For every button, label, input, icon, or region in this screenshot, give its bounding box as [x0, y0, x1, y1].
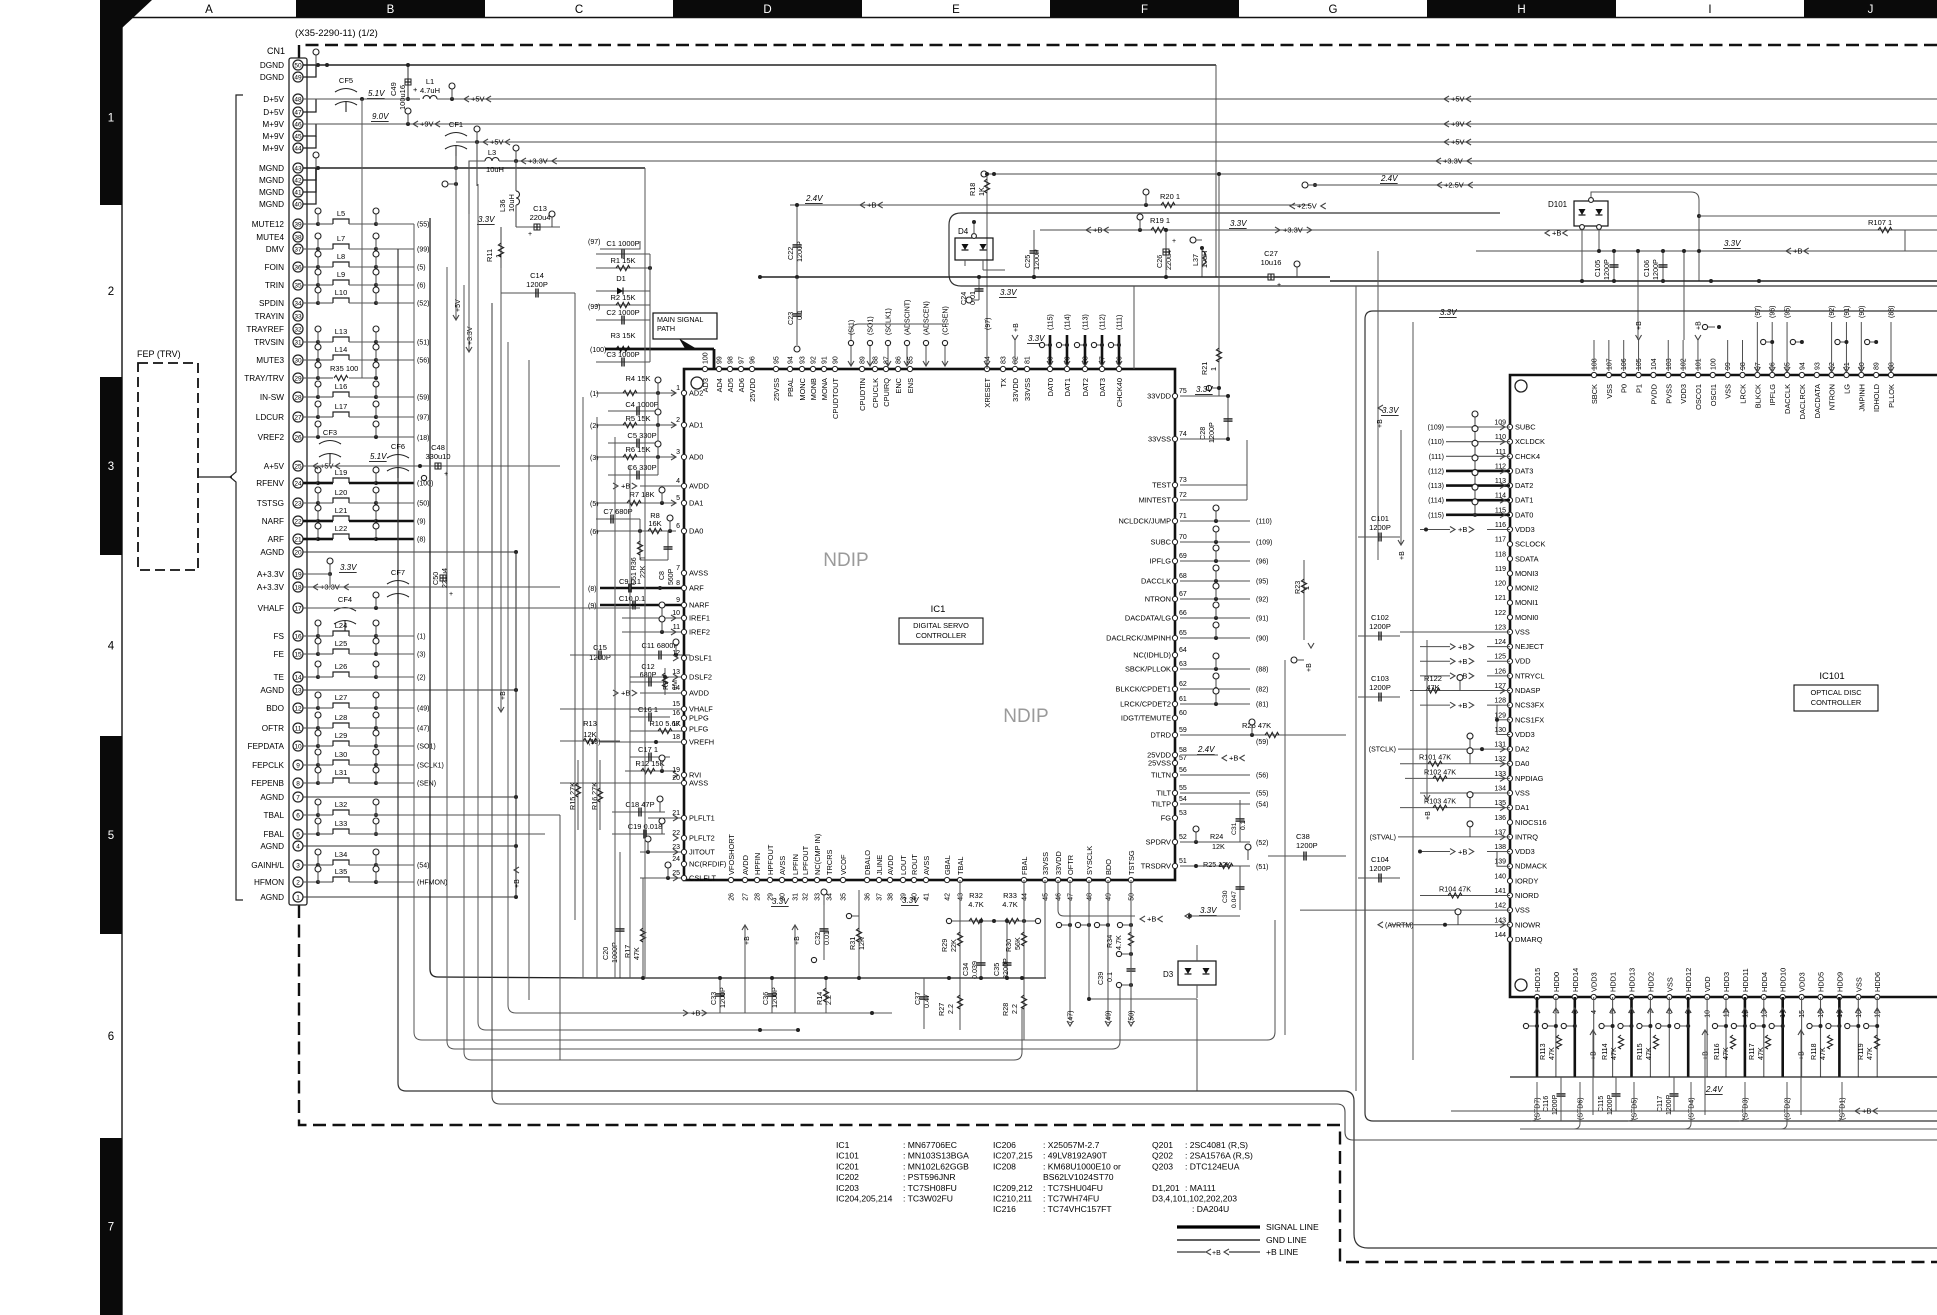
connector label (109) — [1180, 541, 1250, 543]
svg-text:8: 8 — [296, 780, 300, 787]
svg-text:86: 86 — [896, 356, 903, 364]
inductor row L32 pin 6 — [303, 814, 318, 816]
IC1 pin1 indicator — [691, 377, 703, 389]
svg-text:50: 50 — [294, 62, 302, 69]
IC1 pin 74 33VSS — [1172, 436, 1177, 441]
svg-text:130: 130 — [1494, 727, 1506, 734]
svg-text:C3 1000P: C3 1000P — [606, 350, 639, 359]
svg-text:+B: +B — [691, 1009, 700, 1018]
IC1 pin 44 FBAL — [1021, 877, 1026, 882]
rail +B/+2.5V 205 — [790, 204, 1310, 206]
stub circles row under IC1 47-50 — [1056, 922, 1061, 927]
svg-text:120: 120 — [1494, 581, 1506, 588]
IC101 pin 10 VDD — [1705, 994, 1710, 999]
svg-text:L13: L13 — [335, 327, 348, 336]
IC101 pin 98 LRCK — [1740, 372, 1745, 377]
CN1 pin 18 A+3.3V — [293, 582, 303, 592]
CN1 pin 7 AGND — [293, 792, 303, 802]
svg-text:TX: TX — [999, 378, 1008, 388]
svg-text:35: 35 — [294, 282, 302, 289]
svg-text:47K: 47K — [1644, 1047, 1653, 1060]
IC101 pin 137 INTRQ — [1507, 834, 1512, 839]
IC1 pin 30 AVSS — [779, 877, 784, 882]
svg-text:MONI0: MONI0 — [1515, 613, 1538, 622]
svg-text:PLFLT2: PLFLT2 — [689, 834, 715, 843]
svg-text:(109): (109) — [1428, 425, 1444, 432]
svg-text:47K: 47K — [1547, 1047, 1556, 1060]
CN1 pin 43 MGND — [293, 163, 303, 173]
svg-text:BLKCK: BLKCK — [1753, 384, 1762, 408]
IC101 pin 118 SDATA — [1507, 556, 1512, 561]
svg-text:(HFMON): (HFMON) — [417, 880, 447, 887]
svg-text:DA1: DA1 — [1515, 803, 1529, 812]
IC1 pin 93 MONC — [799, 366, 804, 371]
svg-text:10: 10 — [1705, 1010, 1712, 1018]
IC101 pin 104 PVDD — [1651, 372, 1656, 377]
svg-text:NCLDCK/JUMP: NCLDCK/JUMP — [1118, 517, 1171, 526]
IC101 pin 116 VDD3 — [1507, 527, 1512, 532]
IC101 pin 13 HDD4 — [1761, 994, 1766, 999]
svg-text:BS62LV1024ST70: BS62LV1024ST70 — [1043, 1172, 1114, 1182]
svg-text:33VDD: 33VDD — [1011, 378, 1020, 402]
IC1 pin 12 DSLF1 — [681, 655, 686, 660]
inductor row L31 pin 8 — [303, 782, 318, 784]
svg-text:(56): (56) — [1256, 773, 1268, 780]
svg-text:+B LINE: +B LINE — [1266, 1247, 1299, 1257]
svg-text:R34: R34 — [1105, 935, 1114, 948]
wire TEST MINTEST — [1180, 484, 1247, 486]
svg-text:6: 6 — [296, 812, 300, 819]
IC101 pin 140 IORDY — [1507, 878, 1512, 883]
IC1 pin 79 DAT1 — [1064, 366, 1069, 371]
svg-text:4: 4 — [676, 478, 680, 485]
inductor row L22 pin 21 — [303, 538, 318, 541]
svg-text:FS: FS — [274, 632, 285, 641]
svg-text:3.3V: 3.3V — [772, 897, 789, 906]
svg-text:32: 32 — [803, 893, 810, 901]
svg-text:SBCK: SBCK — [1590, 384, 1599, 404]
svg-text:100: 100 — [1710, 358, 1717, 370]
svg-text:47K: 47K — [1865, 1047, 1874, 1060]
IC101 pin 134 VSS — [1507, 790, 1512, 795]
svg-text:89: 89 — [1874, 362, 1881, 370]
IC101 pin 11 HDD3 — [1723, 994, 1728, 999]
svg-text:(AVRTM): (AVRTM) — [1385, 922, 1414, 929]
svg-text:L37: L37 — [1191, 254, 1200, 266]
IC1 pin 69 IPFLG — [1172, 558, 1177, 563]
svg-text:FEPCLK: FEPCLK — [252, 761, 284, 770]
CN1 pin 11 OFTR — [293, 723, 303, 733]
svg-text:AVSS: AVSS — [689, 569, 708, 578]
svg-text:L17: L17 — [335, 402, 348, 411]
svg-text:: TC74VHC157FT: : TC74VHC157FT — [1043, 1204, 1112, 1214]
svg-text:VSS: VSS — [1854, 977, 1863, 992]
CN1 pin 25 A+5V — [293, 461, 303, 471]
svg-text:4.7K: 4.7K — [968, 900, 983, 909]
CN1 pin 47 D+5V — [293, 107, 303, 117]
svg-text:(ADSCINT): (ADSCINT) — [905, 300, 912, 335]
IC101 pin 133 NPDIAG — [1507, 776, 1512, 781]
svg-text:DACDATA/LG: DACDATA/LG — [1125, 614, 1171, 623]
svg-text:1200P: 1200P — [1369, 622, 1391, 631]
svg-text:1200P: 1200P — [1296, 841, 1318, 850]
IC1 pin 41 AVSS — [923, 877, 928, 882]
svg-text:SPDIN: SPDIN — [259, 299, 284, 308]
inductor row L9 pin 35 — [303, 284, 318, 286]
svg-text:VDD3: VDD3 — [1515, 730, 1535, 739]
CN1 pin 38 MUTE4 — [293, 232, 303, 242]
svg-text:+B: +B — [621, 689, 630, 698]
svg-text:103: 103 — [1666, 358, 1673, 370]
svg-text:IPFLG: IPFLG — [1150, 557, 1172, 566]
svg-text:1200P: 1200P — [1032, 249, 1041, 270]
svg-text:124: 124 — [1494, 639, 1506, 646]
svg-text:11: 11 — [295, 725, 302, 732]
svg-text:AGND: AGND — [260, 793, 284, 802]
svg-text:C8: C8 — [659, 571, 666, 580]
IC1 pin 17 PLFG — [681, 726, 686, 731]
CN1 pin 19 A+3.3V — [293, 569, 303, 579]
wire bundle — [464, 285, 1014, 1060]
IC1 pin 29 HPFOUT — [767, 877, 772, 882]
inductor row L13 pin 31 — [303, 341, 318, 343]
IC101 pin 127 NDASP — [1507, 688, 1512, 693]
svg-text:R118: R118 — [1809, 1043, 1818, 1060]
svg-text:IREF1: IREF1 — [689, 614, 710, 623]
svg-text:R35 100: R35 100 — [330, 364, 358, 373]
svg-text:1200P: 1200P — [1607, 1094, 1614, 1115]
connector label (90) — [1180, 637, 1250, 639]
svg-text:I: I — [1708, 4, 1711, 16]
svg-text:MONC: MONC — [798, 377, 807, 400]
svg-text:1200P: 1200P — [589, 653, 611, 662]
IC1 pin 91 MONA — [821, 366, 826, 371]
svg-text:IC201: IC201 — [836, 1161, 859, 1171]
inductor row L14 pin 30 — [303, 359, 318, 361]
pin13 DSLF2 stub — [630, 676, 684, 678]
svg-text:SUBC: SUBC — [1515, 423, 1536, 432]
IC1 pin 66 DACDATA/LG — [1172, 615, 1177, 620]
svg-text:+3.3V: +3.3V — [528, 157, 548, 166]
svg-text:98: 98 — [1740, 362, 1747, 370]
svg-text:R30: R30 — [1004, 939, 1013, 952]
svg-text:46: 46 — [1056, 893, 1063, 901]
IC1 pin 49 BDO — [1105, 877, 1110, 882]
svg-text:132: 132 — [1494, 756, 1506, 763]
svg-text:118: 118 — [1495, 551, 1506, 558]
svg-text:100u16: 100u16 — [398, 85, 407, 110]
svg-text:(50): (50) — [1129, 1011, 1136, 1023]
connector stubs (47)(49)(50) down — [1069, 880, 1071, 1020]
svg-text:: TC7SH08FU: : TC7SH08FU — [903, 1183, 957, 1193]
svg-text:4.7uH: 4.7uH — [420, 86, 440, 95]
svg-text:C105: C105 — [1593, 260, 1602, 277]
inductor row L27 pin 12 — [303, 707, 318, 709]
svg-text:R116: R116 — [1712, 1043, 1721, 1060]
svg-text:R117: R117 — [1747, 1043, 1756, 1060]
wire 5.1V feed down — [361, 99, 363, 378]
CN1 pin 3 GAINH/L — [293, 860, 303, 870]
inductor L36 10uH — [515, 161, 517, 191]
svg-text:+B: +B — [1013, 323, 1020, 332]
inductor row L20 pin 23 — [303, 502, 318, 504]
svg-text:(91): (91) — [1844, 306, 1851, 318]
svg-text:(115): (115) — [1048, 314, 1055, 330]
svg-text:(52): (52) — [1256, 840, 1268, 847]
svg-text:(82): (82) — [1256, 687, 1268, 694]
svg-text:: KM68U1000E10 or: : KM68U1000E10 or — [1043, 1161, 1121, 1171]
svg-text:TEST: TEST — [1152, 481, 1171, 490]
svg-text:74: 74 — [1179, 431, 1187, 438]
IC1 pin 81 33VSS — [1024, 366, 1029, 371]
svg-text:+B: +B — [1147, 915, 1156, 924]
svg-text:48: 48 — [1087, 893, 1094, 901]
svg-text:BDO: BDO — [1104, 859, 1113, 875]
svg-text:VDD3: VDD3 — [1590, 972, 1599, 992]
feedthrough CF4 — [334, 608, 356, 612]
IC1 pin 37 JLINE — [876, 877, 881, 882]
svg-text:MAIN SIGNAL: MAIN SIGNAL — [657, 315, 703, 324]
svg-text:JMPINH: JMPINH — [1857, 384, 1866, 412]
IC101 pin 129 NCS1FX — [1507, 717, 1512, 722]
svg-text:49: 49 — [294, 74, 302, 81]
svg-text:(47): (47) — [417, 726, 429, 733]
svg-text:(6): (6) — [417, 283, 426, 290]
wire FBAL — [349, 833, 545, 835]
svg-text:+B: +B — [1458, 525, 1467, 534]
svg-text:138: 138 — [1494, 844, 1506, 851]
capacitor C14 1200P — [501, 292, 575, 294]
svg-text:D1: D1 — [616, 274, 626, 283]
wire D+5V pin48 rail — [303, 98, 420, 100]
svg-text:MUTE12: MUTE12 — [252, 220, 285, 229]
IC101 pin 126 NTRYCL — [1507, 673, 1512, 678]
svg-text:(92): (92) — [1256, 597, 1268, 604]
svg-text:TRCRS: TRCRS — [825, 849, 834, 875]
IC101 pin 4 VDD3 — [1591, 994, 1596, 999]
svg-text:CF7: CF7 — [391, 568, 405, 577]
svg-text:(99): (99) — [417, 247, 429, 254]
svg-text:14: 14 — [294, 674, 302, 681]
svg-text:63: 63 — [1179, 661, 1187, 668]
IC1 pin 63 SBCK/PLLOK — [1172, 666, 1177, 671]
IC1 pin 52 SPDRV — [1172, 839, 1177, 844]
svg-text:3.3V: 3.3V — [1382, 406, 1399, 415]
IC1 pin 16 PLPG — [681, 715, 686, 720]
IC1 pin 11 IREF2 — [681, 629, 686, 634]
svg-text:83: 83 — [1001, 356, 1008, 364]
svg-text:PBAL: PBAL — [786, 378, 795, 397]
svg-text:7: 7 — [296, 794, 300, 801]
connector label (110) — [1180, 520, 1250, 522]
IC1 pin 43 TBAL — [957, 877, 962, 882]
legend gnd line — [1177, 1239, 1260, 1241]
svg-text:DAT2: DAT2 — [1515, 481, 1533, 490]
svg-text:13: 13 — [672, 669, 680, 676]
IC1 pin 2 AD1 — [681, 422, 686, 427]
svg-text:(97): (97) — [1755, 306, 1762, 318]
svg-text:(STD4): (STD4) — [1689, 1097, 1696, 1120]
CN1 pin 50 DGND — [293, 60, 303, 70]
svg-text:4: 4 — [296, 843, 300, 850]
svg-text:44: 44 — [294, 145, 302, 152]
svg-text:IC209,212: IC209,212 — [993, 1183, 1033, 1193]
svg-text:89: 89 — [860, 356, 867, 364]
svg-text:VHALF: VHALF — [258, 604, 284, 613]
svg-text:(8): (8) — [588, 586, 597, 593]
svg-text:R29: R29 — [940, 939, 949, 952]
svg-text:TSTSG: TSTSG — [1127, 850, 1136, 875]
svg-text:102: 102 — [1681, 358, 1688, 370]
svg-text:+B: +B — [1306, 663, 1313, 672]
svg-text:38: 38 — [888, 893, 895, 901]
IC1 pin 84 XRESET — [984, 366, 989, 371]
rail +5V row1 — [460, 98, 1937, 100]
svg-text:15: 15 — [672, 701, 680, 708]
IC101 pin 114 DAT1 — [1507, 498, 1512, 503]
IC1 pin 32 LPFOUT — [802, 877, 807, 882]
svg-text:AGND: AGND — [260, 686, 284, 695]
IC1 pin 60 IDGT/TEMUTE — [1172, 715, 1177, 720]
wire bundle — [508, 342, 892, 1013]
svg-text:: MN102L62GGB: : MN102L62GGB — [903, 1161, 969, 1171]
IC101 pin 99 VSS — [1725, 372, 1730, 377]
pin11 IREF2 stub — [622, 631, 684, 633]
svg-text:57: 57 — [1179, 755, 1187, 762]
svg-text:D101: D101 — [1548, 200, 1568, 209]
svg-text:(STD7): (STD7) — [1535, 1097, 1542, 1120]
svg-text:112: 112 — [1495, 463, 1506, 470]
svg-text:3: 3 — [296, 862, 300, 869]
svg-text:0.039: 0.039 — [970, 961, 979, 979]
svg-text:(113): (113) — [1428, 483, 1444, 490]
svg-text:MGND: MGND — [259, 200, 284, 209]
svg-text:(95): (95) — [1256, 579, 1268, 586]
IC101 pin 94 DACLRCK — [1799, 372, 1804, 377]
IC1 pin 99 AD4 — [716, 366, 721, 371]
svg-text:NDASP: NDASP — [1515, 686, 1541, 695]
svg-text:DACCLK: DACCLK — [1783, 384, 1792, 414]
svg-text:139: 139 — [1494, 859, 1506, 866]
svg-text:TRAY/TRV: TRAY/TRV — [244, 374, 284, 383]
svg-text:45: 45 — [294, 133, 302, 140]
svg-text:ROUT: ROUT — [910, 854, 919, 875]
svg-text:(112): (112) — [1100, 314, 1107, 330]
IC1 pin 62 BLKCK/CPDET1 — [1172, 686, 1177, 691]
svg-text:DACLRCK: DACLRCK — [1798, 384, 1807, 419]
svg-text:108: 108 — [1592, 358, 1599, 370]
CN1 pin 9 FEPCLK — [293, 760, 303, 770]
svg-text:1: 1 — [296, 894, 300, 901]
pin10 IREF1 stub — [622, 617, 684, 619]
svg-text:(112): (112) — [1428, 468, 1444, 475]
svg-text:NARF: NARF — [262, 517, 284, 526]
svg-text:70: 70 — [1179, 534, 1187, 541]
CN1 pin 48 D+5V — [293, 94, 303, 104]
svg-text:51: 51 — [1179, 858, 1187, 865]
inductor row L29 pin 10 — [303, 745, 318, 747]
svg-text:CONTROLLER: CONTROLLER — [916, 631, 967, 640]
svg-text:115: 115 — [1495, 507, 1506, 514]
svg-text:(5): (5) — [417, 265, 426, 272]
IC1 pin 21 PLFLT1 — [681, 815, 686, 820]
legend signal line — [1177, 1225, 1260, 1228]
svg-text:CN1: CN1 — [267, 46, 285, 56]
IC1 pin 85 ENS — [907, 366, 912, 371]
svg-text:HDD0: HDD0 — [1552, 972, 1561, 992]
svg-text:NCS3FX: NCS3FX — [1515, 701, 1544, 710]
svg-text:(115): (115) — [1428, 512, 1444, 519]
svg-text:MONA: MONA — [820, 378, 829, 400]
svg-text:NCS1FX: NCS1FX — [1515, 715, 1544, 724]
svg-text:(50): (50) — [417, 501, 429, 508]
svg-text:C48: C48 — [431, 443, 445, 452]
IC101 pin 89 IDHOLD — [1874, 372, 1879, 377]
IC101 pin 120 MONI2 — [1507, 585, 1512, 590]
svg-text:31: 31 — [294, 339, 302, 346]
IC101 pin 19 HDD6 — [1875, 994, 1880, 999]
svg-text:38: 38 — [294, 234, 302, 241]
IC101 pin 113 DAT2 — [1507, 483, 1512, 488]
svg-text:(47): (47) — [1068, 1011, 1075, 1023]
svg-text:VDD3: VDD3 — [1515, 525, 1535, 534]
svg-text:25VDD: 25VDD — [748, 378, 757, 402]
svg-text:+5V: +5V — [490, 138, 504, 147]
svg-text:IC202: IC202 — [836, 1172, 859, 1182]
svg-text:CPUDTIN: CPUDTIN — [858, 378, 867, 411]
svg-text:34: 34 — [827, 893, 834, 901]
line 1129 under IC101 — [1520, 1128, 1937, 1130]
inductor row L28 pin 11 — [303, 727, 318, 729]
svg-text:C15: C15 — [593, 643, 607, 652]
wire rail 174 — [988, 173, 1937, 175]
svg-text:R31: R31 — [848, 937, 857, 950]
svg-text:+B: +B — [1793, 247, 1802, 256]
svg-text:HPFIN: HPFIN — [753, 853, 762, 875]
CN1 pin 28 IN-SW — [293, 392, 303, 402]
svg-text:OPTICAL DISC: OPTICAL DISC — [1810, 688, 1862, 697]
svg-text:BLKCK/CPDET1: BLKCK/CPDET1 — [1116, 685, 1171, 694]
bus corner 213 — [949, 213, 1937, 286]
IC101 pin 97 BLKCK — [1755, 372, 1760, 377]
svg-text:15: 15 — [294, 651, 302, 658]
inductor row L24 pin 16 — [303, 635, 318, 637]
CN1 pin 6 TBAL — [293, 810, 303, 820]
IC1 pin 3 AD0 — [681, 454, 686, 459]
svg-text:(SEN): (SEN) — [417, 781, 436, 788]
svg-text:TBAL: TBAL — [264, 811, 285, 820]
svg-text:109: 109 — [1494, 420, 1506, 427]
svg-text:DAT1: DAT1 — [1063, 378, 1072, 396]
svg-text:33VDD: 33VDD — [1054, 851, 1063, 875]
svg-text:NTRON: NTRON — [1145, 595, 1171, 604]
svg-text:F: F — [1141, 4, 1148, 16]
svg-text:4.7K: 4.7K — [1002, 900, 1017, 909]
IC101 pin 92 NTRON — [1829, 372, 1834, 377]
CN1 pin 29 TRAY/TRV — [293, 373, 303, 383]
svg-text:46: 46 — [294, 121, 302, 128]
svg-text:101: 101 — [1695, 358, 1702, 370]
svg-text:CONTROLLER: CONTROLLER — [1811, 698, 1862, 707]
inductor row L5 pin 39 — [303, 223, 318, 225]
svg-text:+5V: +5V — [471, 95, 485, 104]
CN1 pin 37 DMV — [293, 244, 303, 254]
+B arrow AVDD pin4 — [613, 483, 618, 489]
svg-text:(81): (81) — [1256, 702, 1268, 709]
IC101 pin 12 HDD11 — [1742, 994, 1747, 999]
svg-text:CSLFLT: CSLFLT — [689, 874, 716, 883]
connector label (92) — [1180, 598, 1250, 600]
